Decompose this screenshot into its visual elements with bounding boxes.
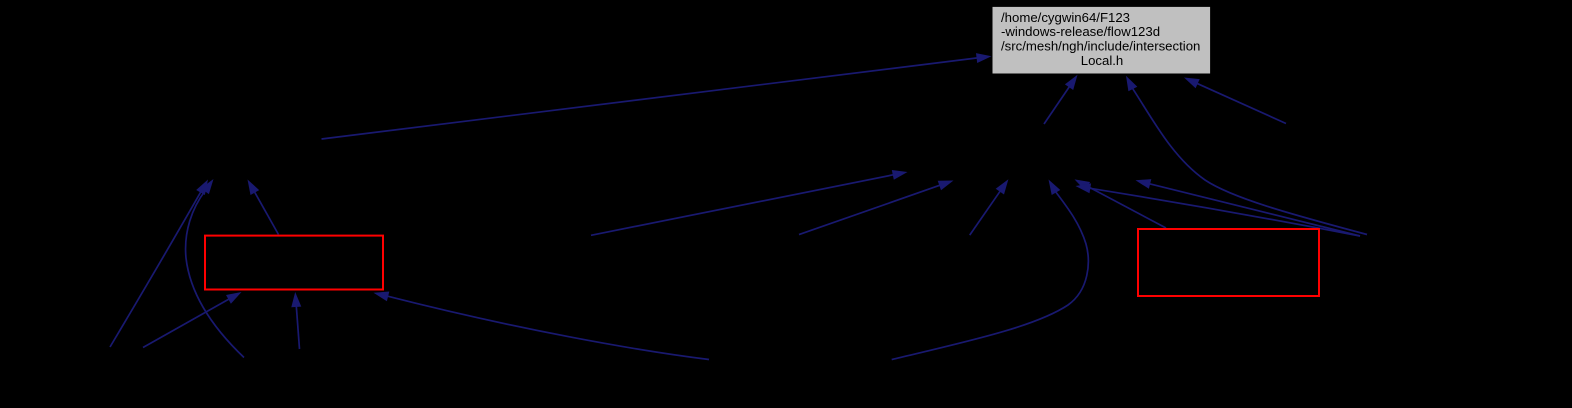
- svg-text:/src/mesh/ngh/include/intersec: /src/mesh/ngh/include/intersection: [1001, 38, 1200, 53]
- svg-text:Local.h: Local.h: [1081, 53, 1124, 68]
- svg-text:-windows-release/flow123d: -windows-release/flow123d: [1001, 24, 1160, 39]
- svg-text:/home/cygwin64/F123: /home/cygwin64/F123: [1001, 10, 1130, 25]
